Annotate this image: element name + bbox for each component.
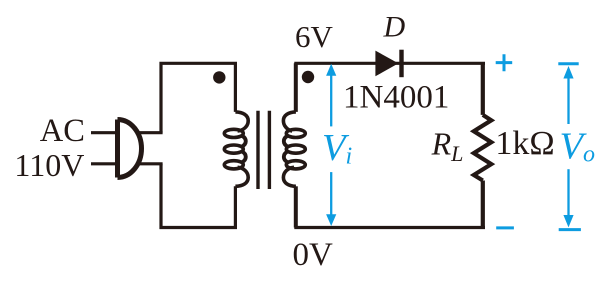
diode D cathode bar (399, 50, 403, 77)
wire right vertical upper lead (481, 63, 485, 115)
svg-text:1N4001: 1N4001 (343, 80, 449, 116)
polarity dot primary (213, 71, 225, 83)
svg-text:D: D (383, 11, 406, 44)
wire AC prong top (91, 131, 117, 134)
wire plug to primary bottom (136, 162, 163, 165)
wire top horizontal 6V to diode to + (294, 62, 485, 65)
Vi arrowhead down (326, 214, 336, 226)
svg-text:6V: 6V (295, 19, 334, 54)
plus sign output (496, 54, 513, 71)
wire secondary top lead (294, 63, 298, 112)
svg-text:RL: RL (431, 126, 464, 166)
polarity dot secondary (302, 71, 314, 83)
svg-text:1kΩ: 1kΩ (495, 125, 554, 162)
transformer T1 primary loop lower (161, 164, 235, 228)
svg-text:Vi: Vi (322, 127, 352, 170)
Vi arrow line upper (330, 74, 332, 126)
resistor RL zigzag (474, 115, 492, 181)
svg-text:0V: 0V (293, 237, 334, 273)
transformer T1 primary winding (224, 112, 248, 186)
svg-text:Vo: Vo (560, 126, 596, 168)
Vo arrow line lower (567, 169, 569, 217)
Vo arrow line upper (567, 77, 569, 124)
Vo arrowhead down (563, 215, 573, 227)
transformer T1 primary loop upper (161, 63, 235, 132)
wire plug to primary top (136, 131, 163, 134)
wire secondary bottom lead (294, 186, 298, 227)
Vo arrowhead up (563, 66, 573, 79)
Vi arrowhead up (326, 64, 336, 76)
Vi arrow line lower (330, 172, 332, 217)
svg-text:110V: 110V (14, 147, 84, 183)
diode D anode triangle (375, 51, 398, 77)
wire right vertical lower lead (481, 181, 485, 228)
svg-text:AC: AC (40, 113, 85, 149)
transformer T1 core (258, 111, 269, 189)
minus sign output (496, 226, 514, 229)
AC plug P1 (118, 120, 142, 178)
wire AC prong bottom (91, 162, 117, 165)
Vo arrow top bar (558, 62, 578, 65)
wire bottom horizontal 0V rail (294, 226, 485, 229)
Vo arrow bottom bar (559, 228, 581, 231)
transformer T1 secondary winding (283, 112, 305, 186)
